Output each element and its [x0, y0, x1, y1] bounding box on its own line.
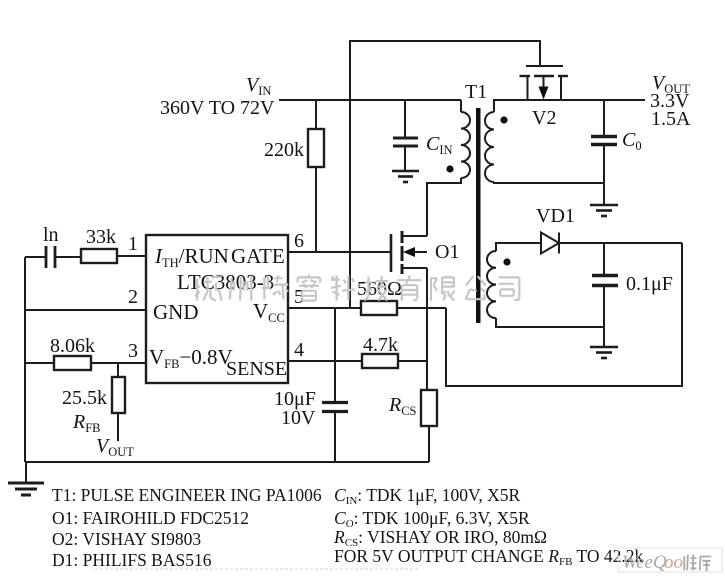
transistor V2	[520, 66, 569, 129]
svg-text:0.1μF: 0.1μF	[626, 273, 673, 295]
wire diode output	[559, 242, 682, 244]
resistor 220k	[264, 100, 324, 252]
svg-text:VFB−0.8V: VFB−0.8V	[149, 345, 233, 371]
IC U1 LTC3803-3	[146, 235, 288, 383]
svg-text:O1: O1	[435, 241, 459, 263]
svg-text:O2: VISHAY SI9803: O2: VISHAY SI9803	[52, 529, 201, 549]
svg-text:VD1: VD1	[536, 205, 575, 227]
watermark center hanzi row	[195, 275, 519, 301]
capacitor CIN	[393, 100, 453, 171]
svg-text:220k: 220k	[264, 139, 304, 161]
node aux phase dot	[503, 258, 510, 265]
svg-text:T1: PULSE ENGINEER ING PA1006: T1: PULSE ENGINEER ING PA1006	[52, 485, 322, 505]
transformer T1 core	[476, 108, 481, 323]
svg-text:C0: C0	[622, 129, 642, 153]
svg-text:1.5A: 1.5A	[651, 108, 691, 130]
svg-text:2: 2	[128, 286, 138, 308]
svg-text:V2: V2	[532, 107, 556, 129]
svg-text:VOUT: VOUT	[96, 435, 134, 459]
svg-text:WeeQ: WeeQ	[622, 552, 667, 573]
svg-text:D1: PHILIFS BAS516: D1: PHILIFS BAS516	[52, 550, 212, 570]
svg-text:oo: oo	[664, 552, 683, 573]
wire bottom rail	[25, 461, 429, 463]
svg-text:4.7k: 4.7k	[363, 334, 398, 356]
resistor RFB 25.5k	[62, 363, 125, 441]
svg-text:LTC3803-3: LTC3803-3	[177, 270, 274, 294]
diode VD1	[536, 205, 575, 254]
transformer primary winding	[426, 100, 470, 183]
svg-text:360V TO 72V: 360V TO 72V	[160, 97, 275, 119]
watermark weeqoo box	[618, 548, 722, 572]
wire pin4 sense	[288, 360, 362, 362]
svg-text:10V: 10V	[281, 407, 316, 429]
wire VCC feedback loop	[446, 243, 682, 386]
resistor 33k	[81, 226, 146, 263]
svg-text:RCS: RCS	[388, 394, 417, 418]
transistor O1	[391, 231, 459, 274]
svg-text:SENSE: SENSE	[226, 358, 287, 380]
wire VIN rail	[279, 99, 461, 101]
wire top rail	[350, 41, 540, 308]
wire output rail	[494, 99, 645, 101]
wire source down	[426, 268, 428, 390]
capacitor C0	[591, 100, 642, 183]
wire drain to primary	[426, 183, 428, 236]
svg-text:3: 3	[128, 340, 138, 362]
svg-text:33k: 33k	[86, 226, 116, 248]
capacitor 1n input	[25, 224, 81, 268]
wire secondary bottom to ground	[603, 183, 605, 205]
ground under C0	[590, 205, 618, 216]
capacitor 10uF VCC	[274, 308, 348, 462]
svg-text:6: 6	[294, 230, 304, 252]
wire aux bottom to ground	[603, 327, 605, 347]
node secondary phase dot	[500, 116, 507, 123]
svg-text:O1: FAIROHILD FDC2512: O1: FAIROHILD FDC2512	[52, 508, 249, 528]
ground under CIN	[392, 171, 419, 182]
capacitor 0.1uF	[592, 243, 673, 327]
scan smudge bottom	[95, 568, 420, 570]
svg-text:8.06k: 8.06k	[50, 335, 95, 357]
svg-text:CIN: TDK 1μF, 100V, X5R: CIN: TDK 1μF, 100V, X5R	[334, 485, 521, 507]
transformer secondary winding	[485, 100, 604, 183]
svg-text:RFB: RFB	[72, 411, 101, 435]
wire pin2 gnd	[25, 309, 146, 311]
svg-text:GATE: GATE	[231, 244, 285, 268]
svg-text:ln: ln	[43, 224, 59, 246]
node primary phase dot	[446, 165, 453, 172]
svg-text:FOR 5V OUTPUT CHANGE RFB TO 42: FOR 5V OUTPUT CHANGE RFB TO 42.2k	[334, 546, 643, 568]
watermark weeqoo	[618, 548, 722, 573]
resistor 8.06k	[25, 335, 146, 370]
ground under 0.1uF	[590, 347, 618, 358]
svg-text:1: 1	[128, 233, 138, 255]
watermark weiku glyphs	[684, 555, 696, 571]
svg-text:CIN: CIN	[426, 133, 453, 157]
resistor RCS	[388, 390, 437, 462]
svg-text:T1: T1	[465, 81, 487, 103]
wire pin6 gate	[288, 251, 391, 253]
wire VCC pin5	[288, 307, 361, 309]
svg-text:25.5k: 25.5k	[62, 387, 107, 409]
resistor 560R	[357, 278, 446, 315]
ground bottom left	[8, 462, 44, 495]
resistor 4.7k	[362, 334, 427, 368]
svg-text:VIN: VIN	[246, 74, 271, 98]
svg-text:4: 4	[294, 339, 304, 361]
wire left rail	[24, 257, 26, 462]
svg-text:GND: GND	[153, 300, 199, 324]
transformer aux winding	[487, 243, 604, 327]
